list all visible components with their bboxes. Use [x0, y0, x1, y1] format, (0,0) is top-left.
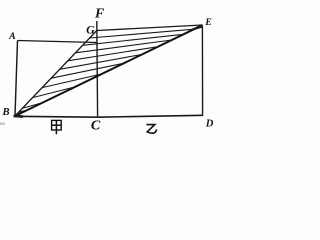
- svg-text:D: D: [205, 119, 214, 130]
- wire: top edge of rectangle 甲: [18, 41, 97, 43]
- svg-text:F: F: [94, 5, 104, 20]
- scan smudge left margin: [0, 123, 5, 125]
- svg-text:E: E: [204, 17, 212, 28]
- junction: thick blob at corner B: [14, 115, 24, 118]
- wire: diagonal B to E: [15, 25, 202, 116]
- wire: vertical line F-G-C: [96, 21, 99, 118]
- svg-text:B: B: [1, 107, 9, 118]
- svg-text:G: G: [86, 23, 95, 37]
- wire: right edge (D to E): [201, 26, 203, 116]
- wire: left edge (A to B): [15, 41, 18, 117]
- svg-text:C: C: [91, 118, 101, 133]
- wire: bottom edge (B to D): [14, 115, 203, 117]
- label 甲 (drawn as strokes): [52, 120, 62, 134]
- hatching of shaded triangle B-G-E (fan strokes toward E): [18, 29, 194, 112]
- label 乙 (drawn as strokes): [146, 125, 156, 134]
- wire: top edge of rectangle 乙 (G to E): [97, 25, 203, 31]
- wire: line B to G: [15, 31, 97, 117]
- junction: dark wedge where diagonal meets roof at E: [190, 24, 203, 31]
- svg-text:A: A: [8, 31, 16, 42]
